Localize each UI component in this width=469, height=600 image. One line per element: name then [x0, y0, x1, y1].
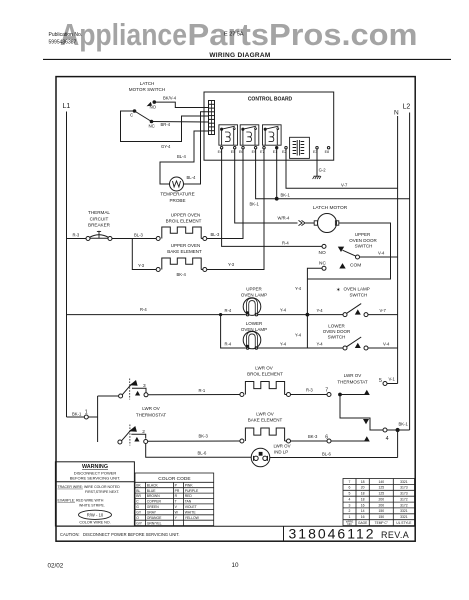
svg-text:BK-1: BK-1: [281, 193, 291, 198]
wire BL-6 indicator to BK-1 drop: [270, 457, 398, 459]
svg-text:R-3: R-3: [73, 232, 80, 237]
svg-text:BROIL ELEMENT: BROIL ELEMENT: [247, 372, 283, 377]
svg-text:4: 4: [386, 436, 389, 442]
svg-text:18: 18: [361, 492, 365, 496]
svg-text:E8: E8: [325, 150, 329, 154]
svg-text:EXAMPLE: RED WIRE WITH: EXAMPLE: RED WIRE WITH: [58, 499, 104, 503]
wire V-7 lamp switch to N: [368, 314, 398, 316]
svg-text:THERMAL: THERMAL: [88, 210, 110, 215]
svg-text:COPPER: COPPER: [147, 500, 162, 504]
wire NO to board: [154, 102, 208, 107]
svg-text:SWITCH: SWITCH: [350, 292, 368, 297]
svg-text:BK-1: BK-1: [250, 202, 260, 207]
svg-text:BR: BR: [136, 494, 141, 498]
svg-text:2: 2: [142, 429, 145, 435]
junction BK-1: [275, 197, 279, 201]
svg-text:PartsPros.com: PartsPros.com: [188, 17, 418, 52]
svg-text:IND LP: IND LP: [274, 450, 288, 455]
thermostat contact arm lower: [340, 395, 383, 431]
svg-text:G: G: [136, 505, 139, 509]
wire NC to board: [152, 121, 209, 124]
thermostat terminal 6: [327, 439, 331, 443]
svg-text:BK-1: BK-1: [399, 421, 409, 426]
wire G-2 from E3 to ground: [316, 149, 318, 176]
wire BK-3 contact2 to lower bake: [148, 440, 241, 442]
svg-text:OVEN DOOR: OVEN DOOR: [323, 329, 351, 334]
svg-text:Publication No.: Publication No.: [49, 32, 83, 38]
svg-text:BL-3: BL-3: [211, 232, 221, 237]
svg-text:E 27 5A: E 27 5A: [224, 32, 244, 38]
svg-text:LOWER: LOWER: [246, 321, 263, 326]
svg-text:LOWER: LOWER: [328, 323, 345, 328]
wire R-4 from E4 to upper door switch NO: [222, 149, 323, 247]
lower oven thermostat heading (left): [136, 406, 167, 418]
svg-text:T: T: [175, 500, 177, 504]
svg-text:2: 2: [349, 509, 351, 513]
svg-text:BL-6: BL-6: [322, 451, 332, 456]
upper oven broil element heading: [166, 212, 202, 223]
svg-text:BL-3: BL-3: [134, 232, 144, 237]
svg-text:PROBE: PROBE: [169, 198, 185, 203]
wire terminal 5 to N: [387, 383, 398, 385]
svg-text:3: 3: [349, 503, 351, 507]
svg-text:BL-6: BL-6: [198, 451, 208, 456]
svg-text:BEFORE SERVICING UNIT.: BEFORE SERVICING UNIT.: [70, 475, 121, 480]
upper oven bake element R2: [156, 268, 160, 272]
lower oven door switch S3: [343, 337, 368, 350]
svg-text:Y-4: Y-4: [280, 342, 287, 347]
svg-text:BL: BL: [136, 489, 140, 493]
svg-text:GY: GY: [136, 511, 142, 515]
svg-text:LWR OV: LWR OV: [255, 365, 272, 370]
svg-text:UPPER: UPPER: [355, 232, 371, 237]
wire terminal 1 to split: [88, 416, 98, 418]
svg-text:GAGE: GAGE: [358, 521, 367, 525]
svg-text:WHITE: WHITE: [185, 511, 197, 515]
svg-text:BR-4: BR-4: [161, 122, 171, 127]
temperature probe: [170, 177, 184, 191]
svg-text:V-7: V-7: [341, 182, 348, 187]
svg-text:02/02: 02/02: [48, 563, 64, 570]
wire NC to lamp bus: [307, 268, 322, 314]
wire BL-6 thermostat2 to indicator: [146, 443, 251, 457]
svg-text:Y-3: Y-3: [138, 263, 145, 268]
wire Y-3 from E7 to upper bake element: [207, 149, 264, 270]
thermostat terminal 7: [327, 393, 331, 397]
wire L2 vertical: [409, 113, 411, 431]
svg-text:150: 150: [378, 509, 384, 513]
wire BK-1 to L2: [277, 198, 410, 200]
latch motor switch terminal labels: [130, 104, 157, 128]
svg-text:THERMOSTAT: THERMOSTAT: [337, 380, 368, 385]
svg-text:NC: NC: [319, 261, 326, 267]
svg-text:TRACER WIRE: WIRE COLOR NOTED: TRACER WIRE: WIRE COLOR NOTED: [58, 485, 121, 489]
wire BK-1 drop to BL-6: [397, 430, 399, 458]
thermostat contact arm upper: [340, 394, 365, 396]
svg-text:125: 125: [378, 486, 384, 490]
svg-text:200: 200: [378, 498, 384, 502]
upper oven lamp heading: [241, 286, 267, 297]
svg-text:5995436387: 5995436387: [49, 40, 77, 46]
svg-text:1: 1: [85, 409, 88, 415]
svg-text:WIRING DIAGRAM: WIRING DIAGRAM: [209, 52, 270, 59]
junction thermostat 7: [338, 393, 342, 397]
svg-text:BK-3: BK-3: [308, 434, 318, 439]
svg-text:C: C: [136, 500, 139, 504]
svg-text:MOTOR SWITCH: MOTOR SWITCH: [129, 87, 165, 92]
svg-text:18: 18: [361, 498, 365, 502]
svg-text:3321: 3321: [400, 480, 408, 484]
svg-text:GY-4: GY-4: [161, 144, 171, 149]
upper door switch contacts: [322, 244, 360, 270]
svg-text:18: 18: [361, 480, 365, 484]
svg-text:3172: 3172: [400, 498, 408, 502]
wire L1 to breaker R-3: [67, 238, 87, 240]
svg-text:FIRST,STRIPE NEXT.: FIRST,STRIPE NEXT.: [85, 490, 120, 494]
wire W/R-4 from E5 to latch motor: [235, 149, 315, 223]
svg-text:W/R-4: W/R-4: [278, 216, 291, 221]
temperature probe label: [160, 192, 194, 203]
wire Y-4 lower lamp to door switch: [258, 347, 344, 349]
svg-text:LWR OV: LWR OV: [274, 444, 291, 449]
svg-text:COLOR WIRE NO.: COLOR WIRE NO.: [79, 521, 110, 525]
svg-text:PURPLE: PURPLE: [185, 489, 199, 493]
svg-text:ORANGE: ORANGE: [147, 516, 162, 520]
svg-text:BREAKER: BREAKER: [88, 223, 111, 228]
svg-text:R: R: [175, 494, 178, 498]
svg-text:UL STYLE: UL STYLE: [396, 521, 411, 525]
svg-text:BLACK: BLACK: [147, 483, 159, 487]
svg-text:125: 125: [378, 492, 384, 496]
indicator lamp heading: [274, 444, 291, 455]
svg-text:6: 6: [349, 486, 351, 490]
latch motor switch contacts: [133, 101, 155, 123]
thermal circuit breaker CB1 heading: [88, 210, 111, 228]
oven lamp switch heading: [336, 287, 370, 298]
svg-text:RED: RED: [185, 494, 193, 498]
wire L1 vertical: [66, 112, 68, 418]
junction BK-1 right: [396, 428, 400, 432]
svg-text:OVEN LAMP: OVEN LAMP: [344, 287, 370, 292]
svg-text:R-4: R-4: [225, 342, 232, 347]
svg-text:318046112: 318046112: [289, 525, 376, 541]
svg-text:G-2: G-2: [319, 168, 327, 173]
svg-text:LWR OV: LWR OV: [256, 411, 273, 416]
svg-text:C: C: [130, 113, 133, 118]
svg-text:BK-3: BK-3: [199, 434, 209, 439]
svg-text:OVEN DOOR: OVEN DOOR: [349, 238, 377, 243]
svg-text:R-3: R-3: [306, 388, 313, 393]
svg-text:BK-1: BK-1: [72, 411, 82, 416]
svg-text:5: 5: [349, 492, 351, 496]
svg-text:OVEN LAMP: OVEN LAMP: [241, 292, 267, 297]
wire E9 to BK-1 junction: [256, 149, 277, 199]
svg-text:REV.A: REV.A: [381, 530, 409, 540]
lower oven bake element R4: [240, 439, 244, 443]
svg-text:CONTROL BOARD: CONTROL BOARD: [248, 97, 293, 103]
svg-text:V-4: V-4: [383, 341, 390, 346]
svg-text:4: 4: [349, 498, 351, 502]
wire L2 to terminal 4: [387, 429, 410, 431]
svg-text:BK/V-4: BK/V-4: [163, 95, 177, 100]
svg-text:3321: 3321: [400, 509, 408, 513]
svg-text:Y-4: Y-4: [280, 307, 287, 312]
svg-text:YELLOW: YELLOW: [185, 516, 200, 520]
svg-text:CIRCUIT: CIRCUIT: [90, 216, 109, 221]
lower oven lamp DS2: [243, 331, 261, 349]
wire latch motor to NC bus: [307, 223, 390, 279]
wire Y-4 bus drop: [306, 315, 308, 348]
relay K1: [219, 125, 238, 145]
svg-text:THERMOSTAT: THERMOSTAT: [136, 413, 167, 418]
svg-text:Y-4: Y-4: [295, 333, 302, 338]
svg-text:WHITE STRIPE.: WHITE STRIPE.: [79, 503, 105, 507]
svg-text:R-1: R-1: [199, 388, 206, 393]
lower oven thermostat heading (right): [337, 373, 368, 385]
title underline: [43, 58, 451, 60]
junction upper lamp feed: [219, 313, 222, 316]
wire GY-4: [121, 111, 209, 142]
svg-text:LATCH: LATCH: [140, 81, 155, 86]
svg-text:TAN: TAN: [185, 500, 192, 504]
relay K3: [263, 125, 282, 145]
svg-text:BK-4: BK-4: [177, 272, 187, 277]
svg-text:16: 16: [361, 503, 365, 507]
svg-text:UPPER: UPPER: [246, 286, 262, 291]
latch motor M1: [314, 214, 339, 233]
diagram frame: [56, 77, 415, 542]
svg-text:GRN/YEL: GRN/YEL: [147, 521, 162, 525]
relay K2: [240, 125, 259, 145]
svg-text:✶: ✶: [336, 287, 341, 294]
wire BL-4 probe right to board: [183, 112, 208, 184]
ground symbol: [313, 176, 321, 179]
svg-text:150: 150: [378, 515, 384, 519]
publication number: [49, 32, 83, 46]
svg-text:LWR OV: LWR OV: [142, 406, 159, 411]
svg-text:PINK: PINK: [185, 483, 194, 487]
svg-text:R/W - 10: R/W - 10: [87, 512, 104, 517]
svg-text:3: 3: [143, 383, 146, 389]
svg-text:R-4: R-4: [140, 307, 147, 312]
svg-text:16: 16: [361, 515, 365, 519]
svg-text:GREEN: GREEN: [147, 505, 160, 509]
thermostat contact 2: [118, 425, 148, 446]
svg-text:3173: 3173: [400, 486, 408, 490]
svg-text:G/Y: G/Y: [136, 521, 143, 525]
svg-text:GRAY: GRAY: [147, 511, 157, 515]
wire BL-3 from E6 to upper broil element: [207, 149, 243, 239]
svg-text:SWITCH: SWITCH: [355, 244, 373, 249]
svg-text:V-1: V-1: [389, 376, 396, 381]
svg-text:7: 7: [349, 480, 351, 484]
transformer T1: [290, 137, 310, 158]
wire V-7 from E2 to N: [286, 149, 398, 188]
svg-text:14: 14: [361, 509, 365, 513]
svg-text:10: 10: [232, 562, 240, 569]
thermostat terminal 5: [383, 382, 387, 386]
upper door switch labels: [319, 250, 362, 269]
wire R-1 contact3 to lower broil: [148, 394, 240, 396]
svg-text:SWITCH: SWITCH: [328, 334, 346, 339]
svg-text:TEMP C°: TEMP C°: [375, 521, 389, 525]
svg-text:Y: Y: [175, 516, 178, 520]
wire thermostat split vertical: [97, 396, 99, 442]
svg-text:20: 20: [361, 486, 365, 490]
svg-text:COM: COM: [350, 263, 361, 269]
svg-text:V-4: V-4: [378, 251, 385, 256]
connector J1 strip: [209, 101, 215, 135]
svg-text:V: V: [175, 505, 178, 509]
thermostat contact 6 arm: [331, 440, 365, 442]
wire BL-3 breaker to broil: [112, 238, 157, 240]
wire BK-1 L1 to thermostat terminal 1: [67, 416, 85, 418]
svg-text:BLUE: BLUE: [147, 489, 157, 493]
thermostat terminal 1: [84, 415, 88, 419]
svg-text:LATCH MOTOR: LATCH MOTOR: [313, 205, 348, 211]
svg-text:R-4: R-4: [225, 308, 232, 313]
upper oven lamp DS1: [243, 298, 261, 316]
thermal circuit breaker CB1: [86, 231, 112, 241]
color code table: [135, 473, 214, 526]
lower oven bake element heading: [248, 411, 283, 422]
svg-text:P: P: [175, 483, 178, 487]
svg-text:COLOR CODE: COLOR CODE: [158, 476, 190, 482]
svg-text:Y-4: Y-4: [295, 286, 302, 291]
board terminals E4 E5 E6 E9 E7 E1 E2 E3 E8: [220, 147, 329, 149]
caution strip: [56, 525, 415, 527]
svg-text:BAKE ELEMENT: BAKE ELEMENT: [248, 418, 283, 423]
lower oven lamp heading: [241, 321, 267, 332]
wire R-3 broil to thermostat 7: [290, 394, 327, 396]
svg-text:TEMPERATURE: TEMPERATURE: [160, 192, 194, 197]
wire N vertical: [397, 116, 399, 384]
svg-text:BL-4: BL-4: [177, 154, 187, 159]
svg-text:5: 5: [379, 378, 382, 384]
svg-text:CAUTION: DISCONNECT POWER BE: CAUTION: DISCONNECT POWER BEFORE SERVICI…: [60, 532, 180, 537]
thermostat terminal 4: [383, 428, 387, 432]
latch motor switch S1 heading: [129, 81, 165, 92]
upper oven bake element heading: [167, 243, 202, 254]
upper oven door switch heading: [349, 232, 377, 249]
wire BL-4 board to probe left: [160, 131, 209, 184]
svg-text:3321: 3321: [400, 515, 408, 519]
svg-text:3173: 3173: [400, 492, 408, 496]
svg-text:BROWN: BROWN: [147, 494, 161, 498]
svg-text:Y-4: Y-4: [317, 342, 324, 347]
wire E1 to BK-1 junction: [276, 149, 278, 199]
svg-text:NO: NO: [150, 104, 157, 109]
wire R-4 lamp feed from L1: [67, 314, 246, 316]
svg-text:VIOLET: VIOLET: [185, 505, 197, 509]
svg-text:BROIL ELEMENT: BROIL ELEMENT: [166, 218, 202, 223]
wire Y-4 upper lamp to switch: [258, 314, 344, 316]
svg-text:NO: NO: [319, 250, 326, 256]
wire gauge table: [343, 479, 415, 526]
control board U1 box: [204, 92, 334, 160]
wire to contact 3: [98, 395, 119, 397]
svg-text:L1: L1: [63, 103, 71, 110]
wire breaker to bake (drop): [132, 239, 156, 270]
thermostat contact 3: [119, 379, 148, 400]
svg-text:Y-3: Y-3: [228, 262, 235, 267]
svg-text:BK: BK: [136, 483, 141, 487]
svg-text:7: 7: [325, 387, 328, 393]
svg-text:V-7: V-7: [380, 308, 387, 313]
svg-text:BL-4: BL-4: [187, 175, 197, 180]
lower oven broil element heading: [247, 365, 283, 376]
oven lamp switch S2: [343, 304, 368, 317]
svg-text:WARNING: WARNING: [82, 464, 108, 470]
svg-text:LWR OV: LWR OV: [344, 373, 361, 378]
wire V-4 COM to N: [359, 256, 397, 258]
svg-text:200: 200: [378, 503, 384, 507]
svg-text:3172: 3172: [400, 503, 408, 507]
svg-text:UPPER OVEN: UPPER OVEN: [171, 243, 201, 248]
svg-text:140: 140: [378, 480, 384, 484]
warning box: [55, 462, 134, 526]
lower oven door switch heading: [323, 323, 351, 339]
svg-text:PR: PR: [175, 489, 180, 493]
wire BK-3 bake to thermostat 6: [290, 440, 327, 442]
svg-text:R-4: R-4: [282, 240, 289, 245]
svg-text:Y-4: Y-4: [317, 308, 324, 313]
svg-text:BAKE ELEMENT: BAKE ELEMENT: [167, 249, 202, 254]
svg-text:O: O: [136, 516, 139, 520]
svg-text:W: W: [175, 511, 179, 515]
junction Y-4 bus: [306, 313, 310, 317]
svg-text:NC: NC: [149, 124, 155, 129]
svg-text:N: N: [394, 110, 399, 117]
wire drop to lower lamp: [221, 315, 246, 348]
svg-text:L2: L2: [403, 104, 411, 111]
upper oven broil element R1: [156, 237, 160, 241]
lower oven broil element R3: [240, 393, 244, 397]
lower oven indicator lamp DS3: [251, 448, 270, 467]
svg-text:6: 6: [325, 434, 328, 440]
splice chevrons on W/R-4: [299, 220, 306, 225]
wire V-4 lower door switch to N: [368, 347, 398, 349]
svg-text:UPPER OVEN: UPPER OVEN: [171, 212, 201, 217]
